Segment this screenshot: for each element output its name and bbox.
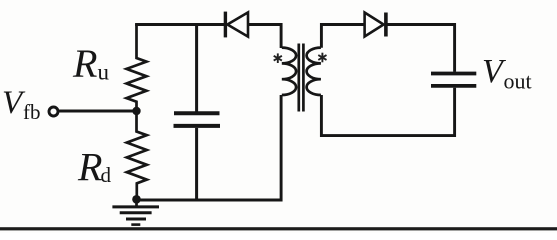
svg-text:out: out [504, 69, 532, 94]
node ground (junction dot) [132, 195, 141, 204]
polarity dot (asterisk) primary [274, 53, 282, 63]
terminal Vfb (open circle) [49, 107, 58, 116]
capacitor C1 lower plate [174, 124, 221, 128]
svg-text:u: u [98, 60, 110, 85]
label Ru [72, 41, 110, 86]
wire D2 to output capacitor C2 [386, 25, 455, 72]
capacitor C2 lower plate [431, 84, 476, 88]
svg-text:R: R [77, 145, 102, 190]
wire capacitor C1 bottom branch [195, 128, 198, 200]
svg-text:R: R [72, 41, 97, 86]
ground symbol [112, 199, 159, 225]
transformer T1 secondary winding [307, 48, 321, 95]
wire capacitor C1 top branch [195, 23, 198, 112]
wire C2 bottom to secondary bottom lead [321, 88, 454, 136]
diode D1 (cathode bar) [224, 12, 227, 38]
diode D2 (triangle, pointing right) [365, 13, 384, 37]
bottom border line [0, 227, 557, 230]
node A (junction dot between Ru and Rd) [132, 107, 140, 115]
capacitor C2 upper plate [431, 72, 476, 76]
label Vout [482, 53, 532, 94]
transformer T1 core [299, 44, 304, 112]
resistor Rd [127, 111, 147, 199]
transformer T1 primary winding [282, 48, 296, 95]
diode D1 (triangle, pointing left) [227, 12, 248, 36]
label Vfb [2, 85, 41, 124]
svg-text:d: d [101, 163, 112, 187]
wire top rail (D1 to transformer primary top) [248, 25, 281, 49]
capacitor C1 upper plate [174, 111, 220, 115]
diode D2 (cathode bar) [384, 13, 388, 37]
label Rd [77, 145, 112, 190]
svg-text:fb: fb [23, 100, 41, 124]
resistor Ru [127, 24, 147, 111]
wire secondary top lead to diode D2 [321, 25, 364, 48]
wire top rail left (Ru top to diode D1) [135, 23, 224, 26]
wire Vfb to node A [59, 110, 137, 113]
polarity dot (asterisk) secondary [318, 53, 326, 63]
wire primary bottom lead to ground rail [135, 95, 281, 200]
